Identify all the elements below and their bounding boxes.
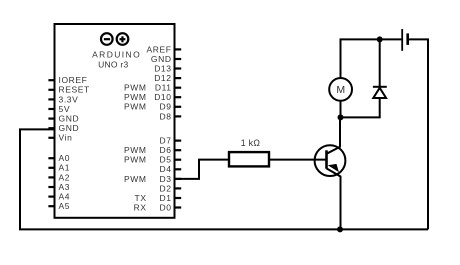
pin D5 stub (175, 159, 182, 161)
pin RESET stub (48, 89, 54, 91)
svg-text:D0: D0 (160, 202, 172, 212)
svg-text:D8: D8 (160, 111, 172, 121)
pin D12 stub (175, 77, 182, 79)
svg-text:D10: D10 (154, 92, 171, 102)
wire motor top (340, 39, 342, 78)
pin AREF stub (175, 48, 182, 50)
diode D1 cathode bar (373, 86, 387, 88)
svg-text:ARDUINO: ARDUINO (92, 49, 141, 59)
transistor Q1 circle (315, 145, 346, 176)
svg-text:PWM: PWM (124, 92, 147, 102)
battery BT1 positive plate (401, 29, 403, 51)
wire collector up (327, 117, 341, 153)
svg-text:A5: A5 (59, 201, 71, 211)
pin A5 stub (48, 205, 54, 207)
transistor Q1 base bar (325, 150, 328, 168)
svg-text:A2: A2 (59, 172, 71, 182)
svg-text:GND: GND (59, 123, 80, 133)
pin Vin stub (48, 137, 54, 139)
pin GND stub (175, 58, 182, 60)
pin GND stub (48, 127, 54, 129)
svg-text:D12: D12 (154, 73, 171, 83)
wire battery to right rail (408, 39, 428, 229)
pin 5V stub (48, 108, 54, 110)
svg-text:PWM: PWM (124, 174, 147, 184)
svg-text:AREF: AREF (147, 44, 172, 54)
battery BT1 negative plate (406, 33, 409, 45)
pin D7 stub (175, 140, 182, 142)
pin A2 stub (48, 176, 54, 178)
pin D0 stub (175, 206, 182, 208)
pin D13 stub (175, 67, 182, 69)
svg-text:M: M (336, 84, 345, 96)
pin D4 stub (175, 168, 182, 170)
wire D3 to resistor (175, 160, 229, 179)
svg-text:D5: D5 (160, 155, 172, 165)
svg-text:PWM: PWM (124, 83, 147, 93)
wire motor junction to diode bottom (341, 98, 380, 118)
junction dot motor-diode-collector (338, 114, 344, 120)
wire resistor to transistor base (270, 159, 327, 161)
svg-text:D2: D2 (160, 183, 172, 193)
svg-text:A0: A0 (59, 153, 71, 163)
pin IOREF stub (48, 79, 54, 81)
svg-text:Vin: Vin (59, 133, 73, 143)
svg-text:GND: GND (59, 114, 80, 124)
svg-text:GND: GND (151, 54, 172, 64)
svg-text:D9: D9 (160, 102, 172, 112)
svg-text:PWM: PWM (124, 102, 147, 112)
svg-text:PWM: PWM (124, 145, 147, 155)
svg-text:IOREF: IOREF (59, 75, 88, 85)
wire emitter down (327, 168, 341, 229)
wire GND to bottom rail (20, 129, 54, 229)
svg-text:PWM: PWM (124, 155, 147, 165)
pin A3 stub (48, 186, 54, 188)
svg-text:D4: D4 (160, 164, 172, 174)
svg-text:A1: A1 (59, 163, 71, 173)
motor M1 circle (329, 78, 352, 101)
svg-text:3.3V: 3.3V (59, 94, 79, 104)
pin D2 stub (175, 187, 182, 189)
svg-text:A4: A4 (59, 192, 71, 202)
svg-text:UNO r3: UNO r3 (98, 59, 128, 69)
svg-text:D6: D6 (160, 145, 172, 155)
transistor Q1 emitter arrow (328, 164, 339, 172)
svg-text:A3: A3 (59, 182, 71, 192)
wire top rail to battery (340, 38, 403, 40)
pin D9 stub (175, 106, 182, 108)
wire motor bottom (340, 101, 342, 118)
pin D6 stub (175, 149, 182, 151)
pin D3 stub (175, 178, 182, 180)
wire bottom rail (19, 228, 428, 230)
svg-text:D1: D1 (160, 193, 172, 203)
svg-text:D7: D7 (160, 136, 172, 146)
pin A1 stub (48, 167, 54, 169)
pin GND stub (48, 117, 54, 119)
pin D11 stub (175, 87, 182, 89)
svg-text:RESET: RESET (59, 85, 90, 95)
svg-text:1 kΩ: 1 kΩ (241, 138, 261, 148)
svg-text:D11: D11 (155, 83, 172, 93)
pin D8 stub (175, 115, 182, 117)
pin A0 stub (48, 157, 54, 159)
svg-text:5V: 5V (59, 104, 71, 114)
Arduino logo (101, 33, 128, 45)
pin A4 stub (48, 196, 54, 198)
resistor R1 1k (229, 152, 269, 166)
wire diode top (379, 39, 381, 87)
pin 3.3V stub (48, 98, 54, 100)
svg-text:RX: RX (134, 202, 147, 212)
Arduino UNO U1 body (55, 24, 175, 218)
pin D1 stub (175, 197, 182, 199)
svg-text:D3: D3 (160, 174, 172, 184)
pin D10 stub (175, 96, 182, 98)
svg-text:D13: D13 (154, 63, 171, 73)
junction dot diode-battery (377, 36, 383, 42)
junction dot emitter-ground rail (337, 226, 343, 232)
diode D1 triangle (373, 88, 386, 98)
svg-text:TX: TX (135, 193, 147, 203)
